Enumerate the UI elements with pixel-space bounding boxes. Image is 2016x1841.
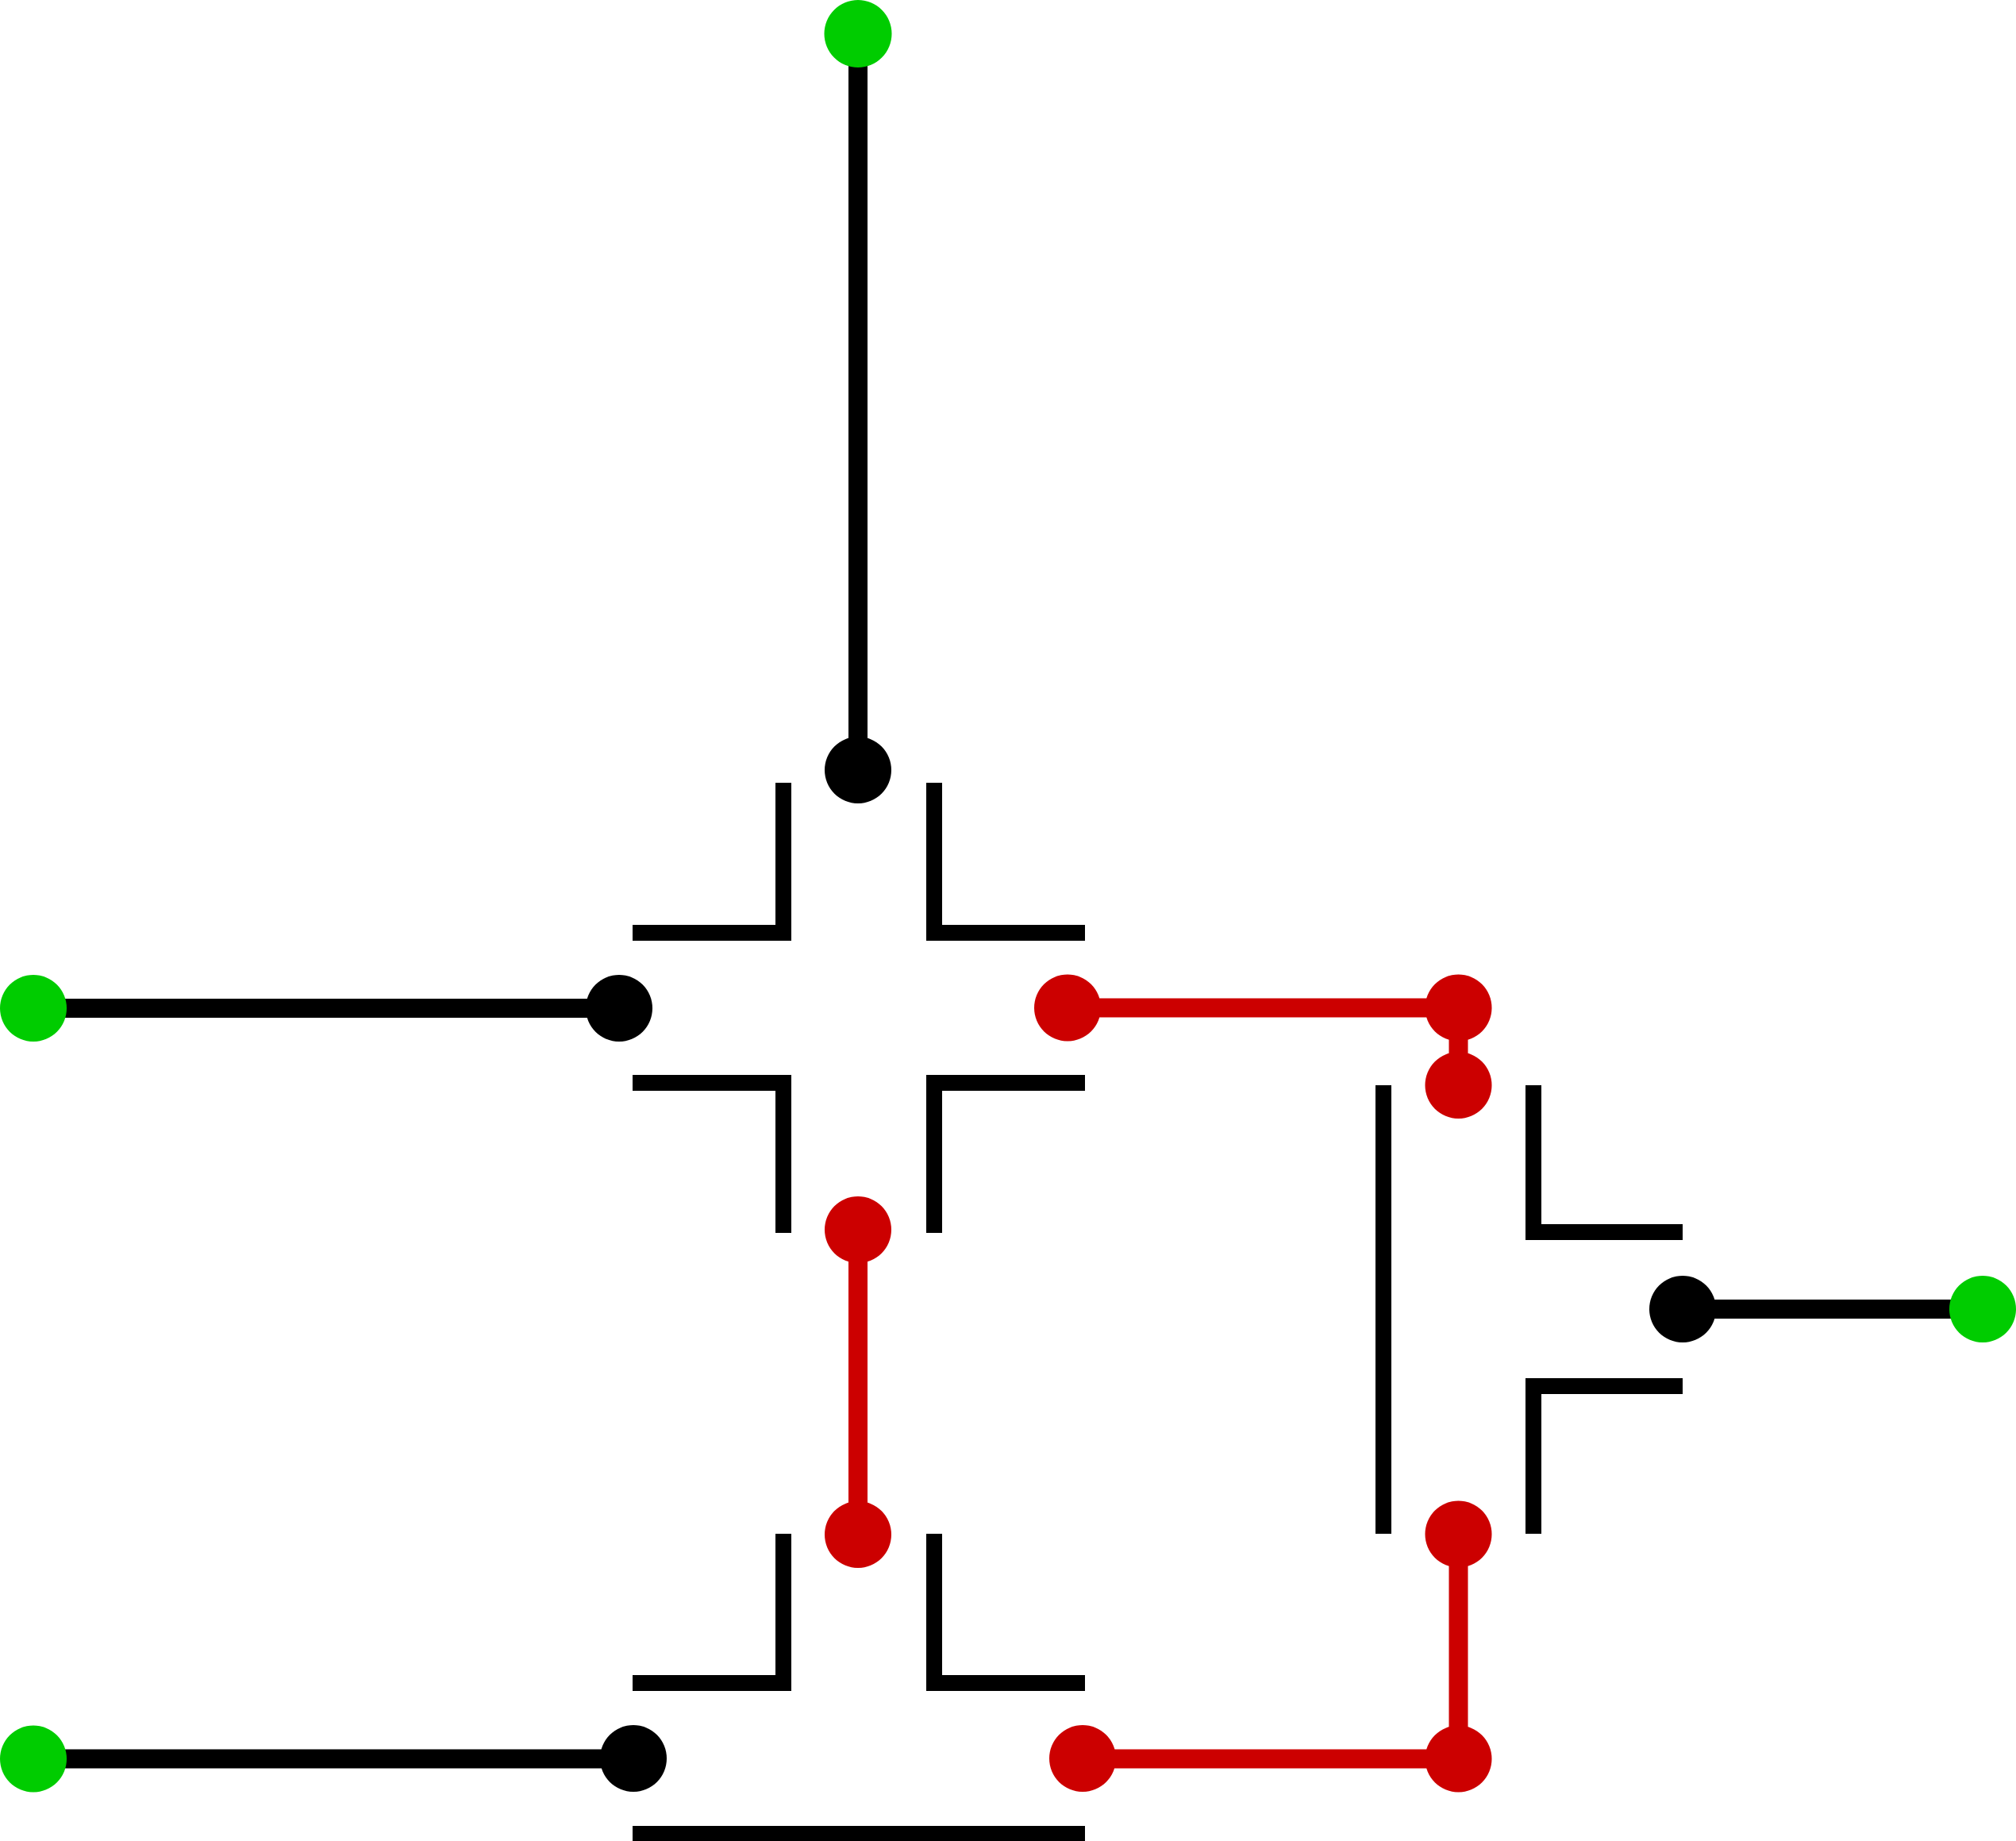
node at Q3 left port (black dot): [600, 1725, 667, 1792]
Q1 top-left bracket: [633, 783, 783, 933]
Q2 top-right bracket: [1533, 1085, 1683, 1232]
wire W3 (Q1 right port to node X, red): [1068, 999, 1459, 1018]
transistor Q2 (right, gate plate left / brackets right): [1383, 1085, 1683, 1534]
wire W5 (Q1 bottom port to Q3 top port, red): [848, 1230, 868, 1535]
Q1 top-right bracket: [934, 783, 1085, 933]
wire W8 (input C to Q3 left port, black): [33, 1750, 633, 1769]
node at Q1 right port (red dot): [1034, 975, 1101, 1042]
Q3 top-right bracket: [934, 1534, 1085, 1683]
Q3 top-left bracket: [633, 1534, 783, 1683]
Q1 bottom-left bracket: [633, 1083, 783, 1233]
terminal A (green, top): [825, 0, 892, 67]
node at Q2 gate port (black dot): [1649, 1276, 1716, 1342]
node at Q1 top port (black dot): [825, 737, 891, 803]
transistor Q1 (cross-coupler symbol, four corner brackets): [633, 783, 1085, 1233]
terminal C (green, bottom left): [0, 1726, 67, 1793]
transistor Q3 (bottom, brackets top / gate plate bottom): [633, 1534, 1085, 1834]
wire W4 (node X down to Q2 top port, red): [1449, 1008, 1468, 1086]
node at Q2 top port (red dot): [1425, 1052, 1492, 1119]
wire W2 (input B to Q1 left port, black): [33, 999, 619, 1018]
terminal OUT (green, right): [1949, 1276, 2016, 1342]
Q2 bottom-right bracket: [1533, 1386, 1683, 1534]
node at Q1 left port (black dot): [586, 975, 652, 1042]
wire W6 (Q2 gate port to output terminal, black): [1683, 1300, 1983, 1319]
wire W7 (Q2 bottom port to Q3 right port, red, L-shaped): [1083, 1535, 1459, 1759]
node at Q3 right port (red dot): [1049, 1725, 1116, 1792]
node at Q2 bottom port (red dot): [1425, 1501, 1492, 1568]
node at Q1 bottom port (red dot): [825, 1196, 891, 1263]
Q3 gate plate (long bar): [633, 1826, 1085, 1841]
terminal B (green, left middle): [0, 975, 67, 1042]
wire W1 (input A to Q1 top port, black): [848, 34, 868, 771]
node corner Y (red dot): [1425, 1726, 1492, 1793]
Q1 bottom-right bracket: [934, 1083, 1085, 1233]
node X corner (red dot): [1425, 975, 1492, 1042]
node at Q3 top port (red dot): [825, 1501, 891, 1568]
Q2 gate plate (long bar): [1375, 1085, 1391, 1534]
